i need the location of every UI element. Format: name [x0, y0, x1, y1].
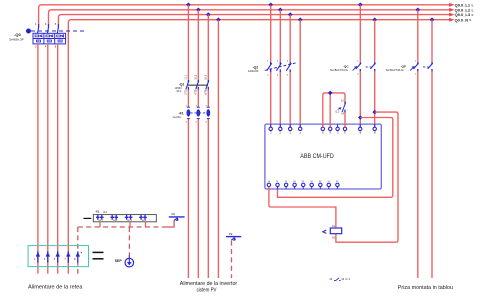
breaker Q0 handle dashed link [31, 30, 84, 32]
svg-text:5: 5 [287, 60, 289, 62]
junction L1-invertor [186, 3, 191, 8]
svg-text:1: 1 [267, 60, 269, 62]
switch Q4 release arrow [410, 66, 414, 70]
wire invertor L1 vertical [187, 5, 189, 278]
junction L2-invertor [196, 8, 201, 13]
supply terminal 1 [36, 251, 40, 262]
relay top pin A1 [359, 124, 362, 130]
switch Q3 aux dashed link [366, 66, 372, 68]
svg-text:N: N [300, 132, 302, 134]
switch Q4 aux contact [428, 62, 433, 72]
breaker Q0 pole 3 blade [57, 24, 58, 33]
svg-text:-Q1: -Q1 [179, 82, 185, 86]
breaker Q0 pole 1 blade [38, 24, 39, 33]
svg-text:2: 2 [186, 121, 188, 123]
svg-text:PE: PE [229, 232, 233, 236]
svg-text:-Q0: -Q0 [14, 32, 21, 37]
svg-text:7: 7 [64, 258, 66, 261]
svg-text:1/L1: 1/L1 [185, 74, 188, 79]
svg-text:WL3: WL3 [127, 220, 132, 222]
wire X1 stub 3 [145, 222, 147, 227]
svg-text:4x63A/2P: 4x63A/2P [248, 70, 259, 73]
wire N branch wrap to coil [336, 112, 398, 242]
terminal X2 PE bar [169, 217, 185, 221]
relay bottom pins [267, 183, 339, 189]
fuse F1 dashed link [190, 112, 206, 114]
wire feedback bridge [323, 93, 345, 127]
svg-text:Alimentare de la invertor: Alimentare de la invertor [180, 281, 238, 287]
wire L2 top horizontal [49, 10, 450, 25]
relay top pin L2 [279, 124, 282, 130]
wire Q3 aux top [374, 20, 376, 63]
wire relay feed L2 [279, 10, 281, 127]
svg-text:SEP: SEP [115, 259, 123, 263]
junction bridge [328, 91, 333, 96]
wire Q3 main top [359, 5, 361, 63]
wire invertor N vertical [217, 20, 219, 278]
contactor Q1 pole 1 [186, 80, 189, 90]
svg-text:6: 6 [55, 44, 57, 48]
svg-text:2: 2 [415, 74, 417, 76]
svg-text:6/T3: 6/T3 [205, 89, 208, 94]
svg-text:-QC: -QC [343, 65, 349, 69]
junction N-invertor [216, 17, 221, 22]
svg-text:3: 3 [45, 22, 47, 26]
arrow Q0.0_L3 [450, 13, 453, 15]
wire coil feed from pin 14 [269, 187, 336, 228]
wire PE dashed vertical left [77, 227, 79, 274]
junction L1 switched feed [358, 3, 363, 8]
svg-text:4/T2: 4/T2 [195, 89, 198, 94]
contactor Q1 pole 2 [196, 80, 199, 90]
wire L3 vertical left [57, 44, 59, 274]
junction L1 branch [358, 115, 363, 120]
switch Q3 main [356, 62, 361, 72]
relay top pin 15 [321, 124, 324, 130]
svg-text:14: 14 [341, 113, 344, 116]
svg-text:Priza montata in tablou: Priza montata in tablou [398, 285, 453, 291]
wire X1 stub 2 [129, 222, 131, 227]
wire invertor L2 vertical [197, 10, 199, 278]
junction N-relay feed [298, 17, 303, 22]
svg-text:14: 14 [341, 277, 345, 281]
wire PE dashed invertor drop [231, 241, 233, 278]
fuse F1 element 3 [207, 107, 210, 118]
wire L1 vertical left [37, 44, 39, 274]
PE bar mark [93, 258, 104, 260]
wire N top horizontal and N vertical [68, 20, 449, 274]
terminal strip X1 box [93, 215, 156, 222]
svg-text:-Q2: -Q2 [253, 65, 259, 69]
svg-text:32: 32 [336, 181, 339, 183]
svg-text:/1: /1 [471, 13, 474, 17]
svg-text:/2.0: /2.0 [103, 211, 108, 214]
svg-text:3x463A,3P: 3x463A,3P [9, 38, 24, 42]
svg-text:2: 2 [35, 44, 37, 48]
switch Q3 aux contact [370, 62, 375, 72]
svg-text:sistem PV: sistem PV [197, 287, 217, 293]
wire Q4 aux vertical [431, 20, 433, 278]
relay top pin A2 [373, 124, 376, 130]
junction L1-relay feed [268, 3, 273, 8]
terminal strip X1 terminals WL1 [96, 215, 104, 220]
breaker Q0 trip unit box [33, 33, 66, 44]
wire PE dashed horizontal [78, 226, 167, 228]
junction N branch [372, 110, 377, 115]
contact K 13-14 [342, 102, 346, 113]
wire relay feed L1 [270, 5, 272, 127]
svg-text:Sw=BAJ/T/23-0s: Sw=BAJ/T/23-0s [386, 69, 405, 72]
switch Q4 main [414, 62, 419, 72]
svg-text:-F1: -F1 [179, 112, 184, 116]
svg-text:13: 13 [341, 100, 344, 103]
switch Q2 pole 1 [267, 62, 272, 72]
relay top pin 18 [343, 124, 346, 130]
label coil -K [323, 230, 327, 233]
svg-text:11: 11 [276, 181, 279, 183]
wire X1 stub 1 [99, 222, 101, 227]
terminal strip X1 terminals WL3 [125, 215, 133, 220]
labels relay bottom pins [268, 181, 340, 183]
supply terminal 5 (PE) [76, 251, 80, 262]
svg-text:1: 1 [415, 60, 417, 62]
wire L1 branch wrap [278, 118, 393, 198]
svg-text:ABB CM-UFD: ABB CM-UFD [300, 153, 334, 160]
svg-text:/1: /1 [471, 8, 474, 12]
switch Q3 release arrow [353, 66, 357, 70]
svg-text:14: 14 [268, 181, 271, 183]
svg-text:N: N [74, 258, 76, 261]
svg-text:1: 1 [35, 22, 37, 26]
svg-text:22: 22 [310, 181, 313, 183]
svg-text:12: 12 [285, 181, 288, 183]
svg-text:2: 2 [357, 74, 359, 76]
svg-text:*: * [81, 251, 83, 256]
svg-text:WL4: WL4 [142, 220, 147, 222]
svg-text:21: 21 [302, 181, 305, 183]
breaker Q0 pole 2 blade [47, 24, 48, 33]
wire L2 vertical left [47, 44, 49, 274]
svg-text:/1.1: /1.1 [345, 277, 350, 281]
wire lamp dashed drop [128, 227, 130, 255]
svg-text:2: 2 [267, 75, 269, 77]
contactor Q1 pole 3 [206, 80, 209, 90]
svg-text:3/L2: 3/L2 [195, 74, 198, 79]
junction L3-relay feed [288, 12, 293, 17]
relay top pin N [299, 124, 302, 130]
junction N aux feed [372, 17, 377, 22]
junction L2 priza feed [416, 8, 421, 13]
breaker Q0 thermal elements [35, 35, 64, 37]
labels Q1 pins [185, 74, 208, 94]
breaker Q0 magnetic elements [36, 40, 62, 42]
svg-text:13: 13 [329, 277, 333, 281]
svg-text:/1: /1 [469, 18, 472, 22]
wire relay feed L3 [289, 15, 291, 128]
svg-text:-QP: -QP [401, 65, 406, 69]
terminal strip X1 left tick [84, 217, 92, 219]
breaker Q0 handle [26, 29, 31, 33]
supply terminal 4 (N) [66, 251, 70, 262]
svg-text:/2.1: /2.1 [335, 111, 340, 114]
svg-text:-X1: -X1 [95, 210, 100, 214]
svg-text:3: 3 [44, 258, 46, 261]
arrow Q0.0_N [450, 19, 453, 21]
svg-text:3: 3 [277, 60, 279, 62]
wire relay feed N [299, 20, 301, 128]
svg-text:Sw=BAJ/T/23-0s: Sw=BAJ/T/23-0s [330, 69, 349, 72]
switch Q2 dashed link [265, 63, 296, 70]
svg-text:1: 1 [357, 60, 359, 62]
lamp SEP [125, 255, 134, 267]
svg-text:1: 1 [34, 258, 36, 261]
relay top pin L3 [289, 124, 292, 130]
terminal strip X1 terminals WL4 [139, 215, 147, 220]
svg-text:34: 34 [319, 181, 322, 183]
svg-text:A2: A2 [332, 236, 336, 239]
fuse F1 element 2 [197, 107, 200, 118]
wire Q3 aux bottom to pin [374, 71, 376, 127]
svg-text:WL2: WL2 [113, 220, 118, 222]
labels F1 pins [186, 106, 208, 124]
relay top pin 17 [336, 124, 339, 130]
svg-text:6: 6 [206, 121, 208, 123]
contactor Q1 link bar [188, 84, 208, 86]
wire PE elbow to terminal X2 [166, 221, 174, 228]
relay coil K1 [330, 228, 341, 234]
svg-text:4: 4 [277, 75, 279, 77]
supply terminal 3 [56, 251, 60, 262]
svg-text:9A 4: 9A 4 [177, 90, 182, 93]
wire Q3 main bottom to pin [359, 71, 361, 127]
wire L3 top horizontal [58, 15, 449, 25]
svg-text:5: 5 [54, 258, 56, 261]
terminal strip X1 terminals WL2 [110, 215, 118, 220]
svg-text:Q0.0_N: Q0.0_N [455, 17, 469, 22]
svg-text:/1: /1 [471, 3, 474, 7]
svg-text:4: 4 [196, 121, 198, 123]
arrow Q0.0_L2 [450, 9, 453, 11]
junction N priza feed [430, 17, 435, 22]
svg-text:5: 5 [55, 22, 57, 26]
fuse F1 element 1 [187, 107, 190, 118]
N bar mark [93, 251, 104, 253]
wire invertor L3 vertical [207, 15, 209, 278]
svg-text:Alimentare de la retea: Alimentare de la retea [28, 285, 83, 291]
arrow Q0.0_L1 [450, 4, 453, 6]
junction L2-relay feed [278, 8, 283, 13]
svg-text:WL1: WL1 [99, 220, 104, 222]
contact K arrow [338, 108, 342, 110]
svg-text:6: 6 [287, 75, 289, 77]
switch Q2 pole 3 [286, 62, 291, 72]
supply terminal 2 [46, 251, 50, 262]
wire Q4 main vertical [417, 10, 419, 278]
switch Q2 pole 2 [276, 62, 281, 72]
relay top pin 16 [329, 124, 332, 130]
svg-text:PE: PE [172, 212, 176, 216]
relay top pin L1 [269, 124, 272, 130]
junction L3-invertor [206, 12, 211, 17]
terminal X3 PE bar (invertor) [226, 237, 241, 241]
svg-text:5/L3: 5/L3 [205, 74, 208, 79]
svg-text:1x+63A,: 1x+63A, [173, 116, 182, 119]
svg-text:31: 31 [327, 181, 330, 183]
svg-text:24: 24 [293, 181, 296, 183]
svg-text:4: 4 [45, 44, 47, 48]
relay box ABB CM-UFD [265, 124, 381, 189]
switch Q4 aux dashed link [423, 66, 429, 68]
svg-text:2/T1: 2/T1 [185, 89, 188, 94]
supply box (green) [28, 246, 88, 267]
wire L1 top horizontal [39, 5, 450, 25]
